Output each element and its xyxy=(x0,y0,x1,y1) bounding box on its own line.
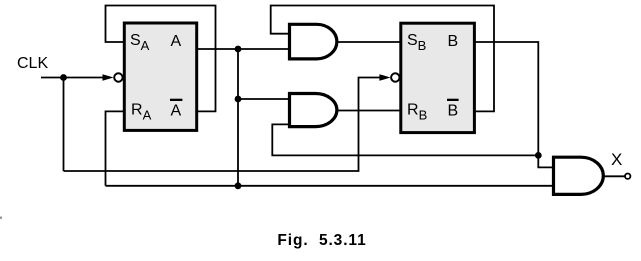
terminal X output circle xyxy=(625,174,630,179)
wire B output feedback to lower AND xyxy=(272,124,538,155)
clock bubble FF A xyxy=(114,73,122,81)
wire A output to upper AND xyxy=(197,48,290,50)
svg-text:B: B xyxy=(448,33,459,50)
node A output junction xyxy=(235,46,242,53)
wire Abar output feedback loop to SA xyxy=(106,6,216,112)
AND gate G3 output xyxy=(554,157,604,194)
svg-text:B: B xyxy=(448,103,459,120)
AND gate G1 upper xyxy=(290,24,337,59)
wire A to lower AND input xyxy=(238,98,290,100)
svg-text:A: A xyxy=(171,103,182,120)
node CLK junction xyxy=(60,74,67,81)
wire CLK input horizontal xyxy=(41,77,106,79)
node bottom bus junction xyxy=(235,182,242,189)
wire upper AND output to SB xyxy=(337,41,401,43)
clock arrowhead FF A xyxy=(103,74,114,81)
flip-flop U1 A box xyxy=(124,23,196,130)
wire lower AND output to RB xyxy=(337,110,401,112)
wire Bbar feedback loop to upper AND xyxy=(271,6,494,112)
svg-text:A: A xyxy=(171,33,182,50)
wire CLK junction down xyxy=(63,78,65,172)
wire X output lead xyxy=(604,175,625,177)
wire CLK bottom run to FF B xyxy=(64,78,382,172)
wire B output xyxy=(475,42,539,155)
wire A vertical bus xyxy=(237,49,239,186)
node B junction xyxy=(535,152,542,159)
svg-text:CLK: CLK xyxy=(17,55,48,72)
overline for Bbar xyxy=(447,99,459,101)
wire RA input loop xyxy=(106,111,125,185)
speck artifact left edge xyxy=(0,217,2,220)
wire bottom long run to output AND xyxy=(106,185,554,187)
svg-text:X: X xyxy=(611,150,622,169)
clock arrowhead FF B xyxy=(379,74,390,81)
AND gate G2 lower xyxy=(290,94,337,127)
clock bubble FF B xyxy=(391,73,399,81)
overline for Abar xyxy=(170,99,182,101)
caption Fig. 5.3.11 xyxy=(0,232,641,250)
node A to lower AND junction xyxy=(235,96,242,103)
wire B to output AND top input xyxy=(538,155,554,167)
flip-flop U2 B box xyxy=(401,23,475,132)
